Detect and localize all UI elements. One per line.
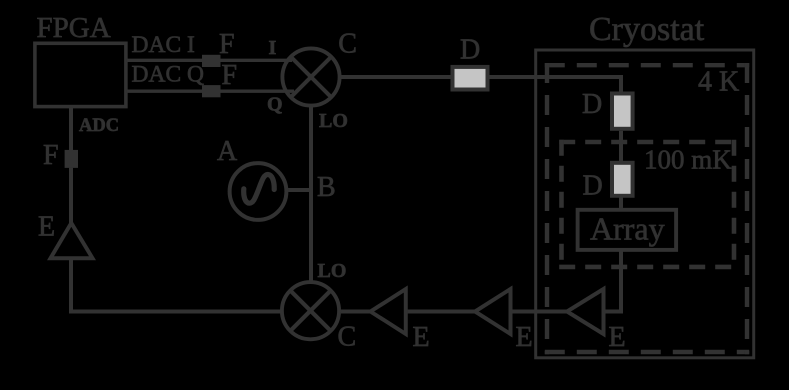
100mK dashed box [559,140,736,270]
mixer C2 circle [282,282,339,339]
source A sine [244,174,275,203]
mixer C1 circle [282,48,339,105]
svg-text:Array: Array [590,211,665,247]
svg-text:B: B [317,172,336,203]
wire amp E1 to filter F3 [69,166,73,224]
wire mixer1 output [338,75,452,79]
attenuator D1 vertical [612,94,633,129]
amplifier E4 (in 4K) [567,289,604,334]
svg-text:D: D [582,89,602,120]
source A circle [230,163,287,220]
svg-text:C: C [338,29,357,60]
svg-text:FPGA: FPGA [37,12,111,44]
svg-text:DAC Q: DAC Q [132,62,204,88]
svg-text:ADC: ADC [79,116,119,136]
svg-text:E: E [413,322,430,353]
4K dashed box [545,63,749,354]
svg-text:Q: Q [267,94,283,116]
filter F1 [202,55,221,67]
wire amp2 to amp1 [407,310,475,314]
svg-text:4 K: 4 K [698,67,739,98]
svg-text:D: D [460,35,480,66]
svg-text:D: D [583,171,603,202]
svg-text:F: F [43,140,59,171]
svg-text:I: I [269,37,277,59]
wire ADC [69,108,73,151]
attenuator D horizontal [453,67,488,90]
wire array down to amp3 [604,250,621,312]
wire mixer2 output to left riser [71,259,282,312]
wire amp1 to mixer2 [341,310,371,314]
wire LO vertical [309,104,313,284]
filter F2 [202,85,221,97]
svg-text:100 mK: 100 mK [644,145,732,175]
wire atten1 to atten2 [619,131,623,161]
wire DAC I [126,59,292,62]
wire DAC Q [126,89,294,92]
svg-text:F: F [222,60,238,91]
cryostat outer box [536,50,754,358]
wire atten2 to array [619,198,623,210]
wire amp3 to amp2 [512,310,567,314]
svg-text:E: E [38,212,55,243]
svg-text:A: A [217,136,238,167]
Array box [578,210,677,250]
svg-text:DAC I: DAC I [132,32,195,58]
attenuator D2 vertical [612,163,633,196]
svg-text:LO: LO [319,110,348,132]
svg-text:E: E [516,322,533,353]
amplifier E2 [371,289,406,334]
filter F3 [65,150,78,168]
mixer C2 cross [290,291,330,331]
amplifier E3 [475,289,511,334]
amplifier E1 (points up) [51,223,93,258]
FPGA box [35,43,126,106]
wire into cryostat [490,77,622,93]
svg-text:C: C [338,322,357,353]
svg-text:E: E [609,322,626,353]
svg-text:F: F [219,29,235,60]
wire source stub [287,188,311,192]
mixer C1 cross [291,57,331,97]
svg-text:Cryostat: Cryostat [589,11,705,48]
svg-text:LO: LO [318,260,347,282]
